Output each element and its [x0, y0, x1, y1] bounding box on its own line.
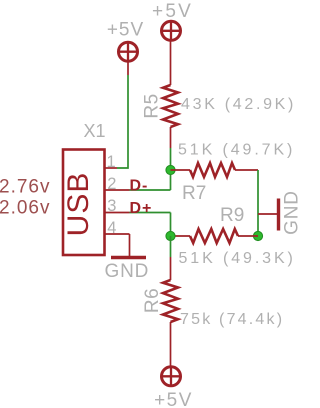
resistor R6: [163, 280, 178, 322]
svg-text:D-: D-: [130, 177, 149, 194]
svg-text:GND: GND: [105, 261, 150, 282]
svg-text:4: 4: [107, 219, 116, 237]
wire R7 left lead: [171, 169, 191, 171]
svg-text:USB: USB: [62, 172, 95, 237]
svg-text:1: 1: [107, 153, 116, 171]
pin 3 stub: [105, 212, 130, 214]
wire P1 to R5: [170, 42, 172, 86]
pin stub P2: [127, 62, 129, 75]
svg-text:3: 3: [107, 197, 116, 215]
wire net D- horizontal: [130, 189, 171, 191]
wire R9 right lead: [238, 235, 258, 237]
svg-text:+5V: +5V: [107, 20, 144, 41]
pin 4 stub: [105, 233, 130, 235]
svg-text:75k (74.4k): 75k (74.4k): [180, 311, 284, 328]
svg-text:2: 2: [107, 175, 116, 193]
svg-text:X1: X1: [84, 121, 106, 141]
ground symbol under USB: [111, 256, 146, 259]
svg-text:+5V: +5V: [154, 390, 193, 408]
resistor R7: [190, 163, 235, 177]
svg-text:R9: R9: [220, 205, 244, 226]
wire net D+ vertical: [170, 213, 172, 237]
svg-text:+5V: +5V: [152, 1, 193, 22]
power +5V P2 top-left symbol: [119, 42, 138, 61]
wire net D+ horizontal: [130, 212, 171, 214]
wire R6 top lead: [170, 257, 172, 280]
wire R6 bottom lead: [170, 322, 172, 366]
node junction right: [253, 231, 262, 240]
svg-text:51K (49.7K): 51K (49.7K): [178, 142, 295, 159]
svg-text:2.06v: 2.06v: [0, 198, 50, 219]
power +5V P3 bottom symbol: [162, 367, 181, 386]
resistor R5: [163, 85, 178, 127]
wire net GND vertical: [257, 170, 259, 236]
svg-text:51K (49.3K): 51K (49.3K): [179, 250, 296, 267]
wire pin4 to ground: [129, 234, 131, 256]
wire net D- vertical: [170, 148, 172, 190]
svg-text:D+: D+: [130, 200, 153, 217]
svg-text:R6: R6: [142, 288, 163, 313]
resistor R9: [190, 229, 238, 243]
wire R9 left lead: [171, 235, 191, 237]
svg-text:R5: R5: [142, 93, 163, 118]
wire net +5V to USB pin1: [117, 75, 128, 168]
connector X1 USB box: [63, 150, 105, 256]
node junction D+: [166, 231, 175, 240]
node junction D-: [166, 165, 175, 174]
wire R7 right lead: [235, 169, 258, 171]
svg-text:R7: R7: [182, 183, 206, 204]
pin 2 stub: [105, 189, 130, 191]
svg-text:2.76v: 2.76v: [0, 177, 50, 198]
ground pin wire right: [258, 213, 277, 215]
svg-text:43K (42.9K): 43K (42.9K): [181, 96, 296, 113]
wire R5 lower lead: [170, 127, 172, 148]
power +5V P1 top-right symbol: [162, 21, 181, 40]
svg-text:GND: GND: [282, 190, 301, 235]
pin 1 stub: [105, 167, 118, 169]
wire net D+ down to R6: [170, 236, 172, 257]
ground symbol right: [277, 199, 280, 231]
